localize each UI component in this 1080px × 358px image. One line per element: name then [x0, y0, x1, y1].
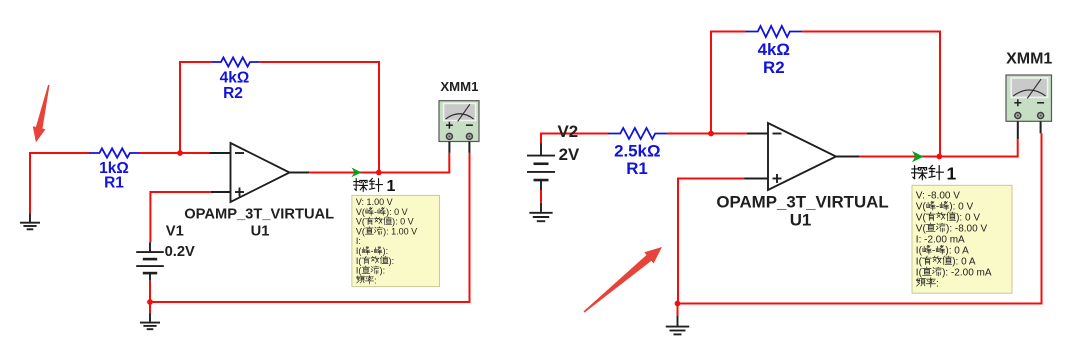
wire: XMM1 - lead down and along bottom (right)	[678, 133, 1042, 303]
svg-text:4kΩ: 4kΩ	[220, 69, 250, 86]
probe label 探针1 (right)	[912, 166, 927, 180]
junction: output/probe node	[376, 170, 382, 176]
svg-text:): 0 V: ): 0 V	[386, 207, 408, 217]
XMM1 terminal stubs (right)	[1017, 121, 1019, 139]
svg-text:-: -	[932, 246, 935, 257]
svg-text:-: -	[936, 202, 939, 213]
svg-text:I(: I(	[356, 246, 362, 256]
svg-text:):: ):	[380, 266, 386, 276]
junction: R1/feedback node	[177, 150, 183, 156]
svg-text:V: 1.00 V: V: 1.00 V	[356, 197, 393, 207]
battery V1 leads	[149, 242, 151, 252]
svg-text:U1: U1	[251, 223, 270, 239]
svg-text:): 0 V: ): 0 V	[949, 202, 973, 213]
svg-text:R1: R1	[104, 175, 124, 192]
svg-text:V(: V(	[916, 202, 927, 213]
junction: bottom rail/ground node (right)	[675, 301, 681, 307]
wire: R2 right down to output node	[260, 62, 379, 172]
svg-text:): -2.00 mA: ): -2.00 mA	[942, 268, 992, 279]
junction: R1/feedback node (right)	[708, 131, 714, 137]
wire: feedback left vertical + top to R2	[180, 62, 211, 153]
svg-text:-: -	[371, 246, 374, 256]
wire: XMM1 - lead down and along bottom to battery node	[150, 153, 470, 302]
svg-text:): 0 V: ): 0 V	[956, 213, 980, 224]
svg-text:):: ):	[383, 246, 389, 256]
op-amp U1 (OPAMP_3T_VIRTUAL)	[231, 143, 290, 202]
svg-text:I(: I(	[356, 256, 362, 266]
battery V2 top lead	[540, 143, 542, 156]
svg-text:):: ):	[389, 256, 395, 266]
wire: V2 to ground (right)	[540, 190, 542, 203]
multimeter XMM1 (left)	[439, 101, 479, 142]
svg-text:I:: I:	[356, 236, 361, 246]
svg-text:): -8.00 V: ): -8.00 V	[946, 224, 987, 235]
probe readout box (left) 探针1 values	[352, 195, 440, 286]
ground symbol (left input)	[29, 213, 31, 222]
svg-text:): 0 A: ): 0 A	[945, 246, 969, 257]
wire: op-amp output to XMM1 + lead	[309, 153, 449, 173]
wire: + input to battery V1	[150, 192, 211, 242]
ground symbol (under V1)	[149, 314, 151, 322]
annotation arrow (left pointer)	[33, 85, 50, 143]
svg-text:V(: V(	[356, 226, 365, 236]
battery V2 bottom lead	[540, 180, 542, 190]
ground symbol (under V2)	[540, 203, 542, 212]
svg-text::: :	[374, 275, 377, 285]
junction: battery/bottom-rail node	[147, 299, 153, 305]
probe readout box (right) 探针1 values	[912, 185, 1012, 293]
resistor R2 4kΩ (feedback)	[211, 57, 259, 66]
multimeter XMM1 (right)	[1006, 75, 1052, 121]
svg-text:4kΩ: 4kΩ	[758, 40, 790, 59]
svg-text:1: 1	[387, 178, 396, 195]
wire: R1 to op-amp inverting input (right)	[667, 133, 747, 135]
svg-text:-: -	[374, 207, 377, 217]
svg-text:): 0 A: ): 0 A	[952, 257, 976, 268]
svg-text:I(: I(	[356, 266, 362, 276]
svg-text:1: 1	[947, 163, 957, 183]
svg-text:U1: U1	[790, 211, 812, 230]
svg-text:XMM1: XMM1	[1006, 50, 1052, 67]
svg-text::: :	[936, 279, 939, 290]
probe arrow 探针1 (right)	[912, 151, 924, 162]
svg-text:V: -8.00 V: V: -8.00 V	[916, 191, 960, 202]
battery V1 (0.2V DC source)	[136, 251, 164, 253]
wire: input node from ground up and right to R1	[30, 153, 90, 213]
svg-text:V2: V2	[558, 122, 579, 141]
svg-text:): 1.00 V: ): 1.00 V	[383, 226, 417, 236]
resistor R1 2.5kΩ (right)	[608, 128, 667, 139]
svg-text:OPAMP_3T_VIRTUAL: OPAMP_3T_VIRTUAL	[184, 207, 334, 223]
wire: V2 to R1 (right)	[541, 134, 609, 144]
wire: bottom node to ground stub (right)	[677, 304, 679, 317]
op-amp U1 pins (left)	[209, 152, 230, 154]
svg-text:V(: V(	[356, 217, 365, 227]
svg-text:2V: 2V	[559, 145, 580, 164]
XMM1 terminal stubs (left)	[448, 142, 450, 153]
probe arrow 探针1 (left)	[351, 168, 361, 178]
svg-text:V(: V(	[916, 213, 927, 224]
svg-text:I: -2.00 mA: I: -2.00 mA	[916, 235, 965, 246]
svg-text:OPAMP_3T_VIRTUAL: OPAMP_3T_VIRTUAL	[716, 193, 888, 212]
op-amp U1 pins (right)	[747, 133, 768, 135]
junction: output/probe node (right)	[936, 154, 942, 160]
svg-text:2.5kΩ: 2.5kΩ	[614, 141, 660, 160]
svg-text:V(: V(	[356, 207, 365, 217]
wire: battery V1 to bottom node	[149, 281, 151, 302]
wire: feedback left vertical + top to R2 (right)	[711, 32, 746, 134]
svg-text:I(: I(	[916, 268, 923, 279]
svg-text:0.2V: 0.2V	[165, 244, 195, 260]
probe label 探针1 (left)	[354, 179, 368, 192]
svg-text:R1: R1	[626, 159, 648, 178]
svg-text:V(: V(	[916, 224, 927, 235]
svg-text:R2: R2	[223, 85, 243, 102]
wire: R1 to op-amp inverting input	[140, 152, 210, 154]
wire: R2 right down to output node (right)	[802, 32, 940, 156]
svg-text:XMM1: XMM1	[440, 79, 478, 94]
svg-text:): 0 V: ): 0 V	[392, 217, 414, 227]
resistor R2 4kΩ (right feedback)	[746, 26, 803, 37]
ground symbol (right bottom)	[677, 316, 679, 326]
svg-text:R2: R2	[763, 58, 785, 77]
annotation arrow (right pointer)	[584, 247, 663, 313]
wire: + input vertical to bottom rail (right)	[678, 179, 744, 304]
wire: op-amp output to XMM1 + lead (right)	[859, 139, 1018, 156]
resistor R1 1kΩ	[89, 148, 140, 157]
svg-text:I(: I(	[916, 246, 923, 257]
op-amp U1 (right OPAMP_3T_VIRTUAL)	[768, 123, 836, 190]
svg-text:V1: V1	[166, 223, 184, 239]
svg-text:I(: I(	[916, 257, 923, 268]
battery V2 (2V DC source)	[527, 155, 555, 157]
wire: bottom node to ground stub	[149, 302, 151, 314]
